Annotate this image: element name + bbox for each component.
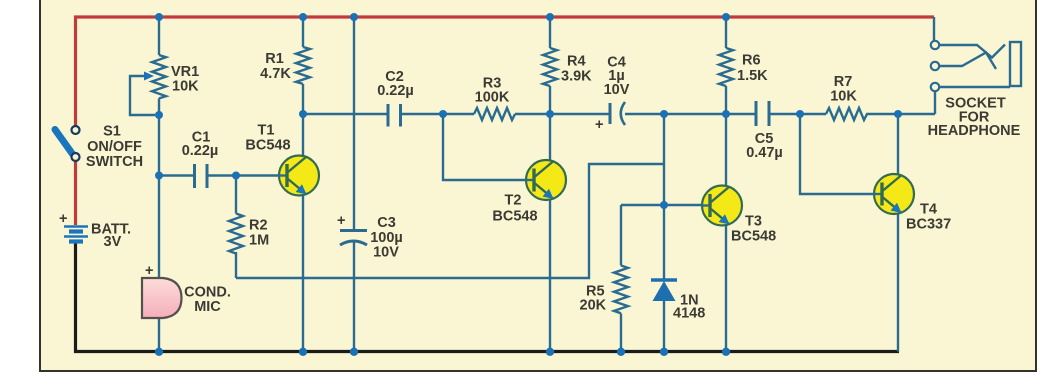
junction mic ground — [155, 348, 163, 356]
potentiometer VR1 10K — [152, 55, 166, 98]
junction R1/C2/T1 collector — [299, 110, 307, 118]
svg-text:T2: T2 — [505, 193, 522, 209]
resistor R6 1.5K — [725, 17, 727, 114]
capacitor C4 1u — [610, 102, 625, 125]
svg-text:10V: 10V — [604, 82, 630, 98]
feedback wire R2 bottom to D1 node — [236, 164, 664, 278]
junction C1/R2/T1 base — [232, 172, 240, 180]
+3V red rail — [76, 17, 935, 126]
svg-text:+: + — [145, 263, 153, 279]
transistor T1 BC548 — [278, 156, 319, 196]
junction R6 top on +3V rail — [722, 13, 730, 21]
junction R7/T4 collector/socket — [894, 110, 902, 118]
wire R7 node to T4 base — [800, 114, 884, 194]
junction C2/R3/T2 base — [439, 110, 447, 118]
svg-text:3V: 3V — [104, 234, 122, 250]
resistor R3 100K — [474, 108, 515, 120]
svg-text:BC337: BC337 — [906, 217, 951, 233]
svg-text:MIC: MIC — [194, 299, 221, 315]
condenser mic — [142, 278, 182, 318]
svg-text:3.9K: 3.9K — [561, 69, 592, 85]
junction VR1 top on +3V rail — [155, 13, 163, 21]
wire T1 emitter to ground — [302, 193, 304, 352]
junction R4 top on +3V rail — [546, 13, 554, 21]
wire T1 collector — [302, 114, 304, 158]
wire C4 node down to bias node — [663, 114, 665, 205]
svg-text:S1: S1 — [103, 124, 121, 140]
svg-text:BC548: BC548 — [245, 138, 290, 154]
svg-text:R6: R6 — [742, 53, 761, 69]
capacitor C5 0.47u — [756, 101, 769, 126]
svg-text:R1: R1 — [265, 51, 284, 67]
junction R5 ground — [617, 348, 625, 356]
svg-text:ON/OFF: ON/OFF — [87, 139, 142, 155]
svg-text:+: + — [59, 211, 67, 227]
svg-text:10K: 10K — [830, 89, 857, 105]
resistor R7 10K — [826, 108, 867, 120]
junction R1 top on +3V rail — [299, 13, 307, 21]
bias wire to T3 base — [621, 204, 712, 206]
svg-text:BC548: BC548 — [731, 229, 776, 245]
red wire switch to battery — [74, 160, 77, 225]
svg-text:BC548: BC548 — [492, 209, 537, 225]
svg-text:1.5K: 1.5K — [737, 68, 768, 84]
wire VR1 branch (x=159) — [158, 17, 160, 352]
junction C4 output node — [660, 110, 668, 118]
capacitor C3 100u — [340, 231, 367, 246]
svg-text:+: + — [337, 213, 345, 229]
svg-text:C3: C3 — [377, 215, 396, 231]
capacitor C2 0.22u — [388, 104, 401, 127]
junction R3/R4/T2 collector — [546, 110, 554, 118]
svg-text:0.47µ: 0.47µ — [746, 145, 783, 161]
resistor R1 4.7K — [302, 17, 304, 114]
svg-text:0.22µ: 0.22µ — [182, 143, 219, 159]
wire C3 branch (x=354) — [353, 17, 355, 352]
capacitor C1 0.22u — [195, 164, 208, 188]
battery BT1 3V — [64, 227, 88, 242]
svg-text:10K: 10K — [172, 79, 199, 95]
junction T3 emitter ground — [722, 348, 730, 356]
svg-text:100K: 100K — [475, 90, 510, 106]
svg-text:10V: 10V — [373, 245, 399, 261]
wire R3 node to T2 base — [443, 114, 535, 180]
junction T1 emitter ground — [299, 348, 307, 356]
main signal wire y=114 — [303, 91, 935, 114]
svg-text:+: + — [595, 117, 603, 133]
transistor T4 BC337 — [873, 174, 914, 214]
wire T2 collector — [549, 114, 551, 162]
transistor T3 BC548 — [701, 186, 742, 226]
wire C1 row (y=175.5) — [159, 174, 288, 176]
svg-text:4148: 4148 — [673, 306, 705, 322]
svg-text:20K: 20K — [580, 298, 607, 314]
ground rail (black) — [76, 243, 900, 352]
resistor R4 3.9K — [549, 17, 551, 114]
transistor T2 BC548 — [525, 160, 566, 200]
svg-text:1M: 1M — [249, 233, 269, 249]
svg-text:T1: T1 — [258, 123, 275, 139]
junction C3 top on +3V rail — [350, 13, 358, 21]
switch S1 — [55, 126, 80, 161]
junction VR1/C1/mic node — [155, 172, 163, 180]
wire T3 emitter to ground — [725, 224, 727, 352]
junction R6/C5/T3 collector — [722, 110, 730, 118]
svg-text:4.7K: 4.7K — [260, 66, 291, 82]
svg-text:T3: T3 — [745, 214, 762, 230]
wire T2 emitter to ground — [549, 198, 551, 352]
junction C3 ground — [350, 348, 358, 356]
svg-text:0.22µ: 0.22µ — [377, 83, 414, 99]
junction T2 emitter ground — [546, 348, 554, 356]
wire T4 collector — [897, 114, 899, 176]
svg-text:R4: R4 — [567, 54, 586, 70]
VR1 wiper wire — [130, 76, 155, 115]
junction D1/R5/T3 base node — [660, 201, 668, 209]
svg-text:SWITCH: SWITCH — [86, 154, 143, 170]
wire T4 emitter to ground — [897, 212, 899, 352]
junction VR1 wiper — [155, 111, 163, 119]
resistor R5 20K — [620, 205, 622, 352]
svg-text:T4: T4 — [920, 202, 937, 218]
diode D1 1N4148 — [651, 205, 677, 352]
headphone socket — [931, 17, 1021, 91]
resistor R2 1M — [235, 176, 237, 279]
svg-text:R2: R2 — [249, 218, 268, 234]
junction C5/R7/T4 base — [796, 110, 804, 118]
junction D1 ground — [660, 348, 668, 356]
svg-text:HEADPHONE: HEADPHONE — [928, 123, 1021, 139]
wire T3 collector — [725, 114, 727, 188]
